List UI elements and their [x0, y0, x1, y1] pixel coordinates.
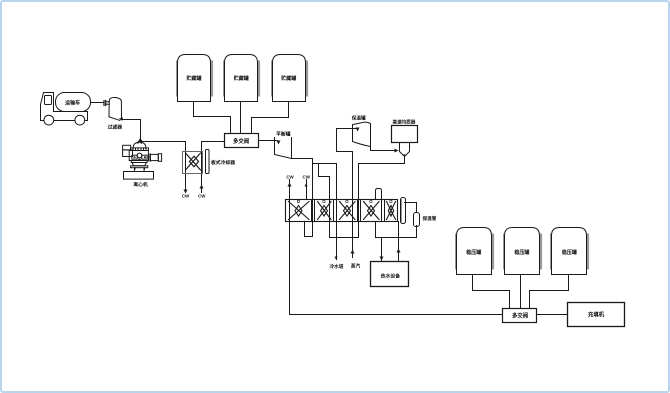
pressure tank 稳压罐 3 — [550, 228, 589, 275]
plate cooler through-pipes — [186, 142, 202, 193]
CW arrow line 1 — [290, 180, 503, 315]
wire tank3 to valve — [252, 102, 289, 134]
svg-text:热水设备: 热水设备 — [381, 273, 400, 280]
wire steam line — [337, 129, 358, 258]
svg-text:离心机: 离心机 — [133, 181, 148, 188]
wire tank to valve right 2 — [520, 275, 522, 309]
svg-text:CW: CW — [286, 175, 294, 180]
storage tank 贮藏罐 1 — [176, 55, 213, 102]
storage tank 贮藏罐 2 — [223, 55, 260, 102]
homogenizer 高速均质器 — [392, 126, 418, 158]
CW outlet arrow left — [184, 190, 188, 194]
CW arrow line 2 — [306, 180, 308, 200]
svg-text:运输车: 运输车 — [65, 99, 80, 106]
svg-text:多交阀: 多交阀 — [512, 311, 529, 319]
wire tank2 to valve — [240, 102, 242, 134]
svg-text:CW: CW — [198, 194, 206, 199]
balance tank 平衡罐 — [275, 138, 292, 159]
pasteurizer block 杀菌机 — [286, 200, 398, 222]
truck 运输车 — [41, 93, 91, 126]
wire balance tank to pasteurizer — [292, 159, 313, 237]
CW inlet arrow right — [200, 185, 204, 189]
plate cooler 板式冷却器 — [183, 150, 210, 174]
pasteurizer section 2 pattern — [318, 201, 332, 220]
wire homogenizer to pasteurizer — [359, 158, 405, 238]
wire hot water loop — [376, 222, 417, 238]
multi-way valve right 多交阀 — [503, 309, 537, 323]
wire valve to balance tank — [259, 141, 279, 143]
wire truck to filter — [91, 102, 104, 104]
pressure tank 稳压罐 2 — [503, 228, 542, 275]
svg-text:稳压罐: 稳压罐 — [562, 249, 577, 256]
pasteurizer vent stub — [376, 189, 382, 200]
wire cooler to valve — [202, 141, 225, 143]
svg-text:板式冷却器: 板式冷却器 — [211, 159, 235, 166]
svg-text:过滤器: 过滤器 — [108, 124, 123, 131]
svg-text:多交阀: 多交阀 — [233, 137, 250, 145]
svg-text:CW: CW — [182, 194, 190, 199]
svg-text:充填机: 充填机 — [588, 311, 605, 319]
pasteurizer section 3 pattern — [340, 201, 356, 220]
holding tube 保温管 — [414, 213, 420, 227]
wire hopper to homogenizer — [371, 146, 396, 151]
multi-way valve 多交阀 — [225, 134, 259, 148]
svg-text:保温罐: 保温罐 — [351, 114, 366, 121]
wire valve to filler — [538, 314, 568, 316]
svg-text:高速均质器: 高速均质器 — [393, 118, 416, 125]
wire tank1 to valve — [194, 102, 231, 134]
pasteurizer section 5 pattern — [387, 201, 396, 220]
wire holding tube down — [416, 226, 418, 238]
wire staircase regen — [313, 163, 337, 165]
wire tank to valve right 3 — [530, 275, 569, 309]
svg-text:贮藏罐: 贮藏罐 — [233, 75, 249, 82]
hot water unit 热水设备 — [371, 262, 409, 287]
svg-text:稳压罐: 稳压罐 — [466, 249, 481, 256]
wire tank to valve right 1 — [473, 275, 510, 309]
pasteurizer section 1 pattern — [289, 201, 310, 220]
pasteurizer section 4 pattern — [364, 201, 380, 220]
wire end cap to holding tube — [405, 203, 417, 213]
filling machine 充填机 — [568, 303, 625, 327]
wire centrifuge to plate cooler — [141, 141, 186, 143]
svg-text:保温管: 保温管 — [422, 215, 437, 222]
wire filter to centrifuge — [122, 120, 141, 142]
svg-text:贮藏罐: 贮藏罐 — [280, 75, 296, 82]
svg-text:稳压罐: 稳压罐 — [514, 249, 529, 256]
centrifuge 离心机 — [123, 139, 162, 179]
filter 过滤器 — [104, 97, 123, 120]
svg-text:贮藏罐: 贮藏罐 — [185, 75, 201, 82]
wire to cooling tower — [336, 164, 338, 260]
svg-text:CW: CW — [303, 175, 311, 180]
pasteurizer end cap — [401, 198, 406, 224]
storage tank 贮藏罐 3 — [271, 55, 308, 102]
svg-text:平衡罐: 平衡罐 — [276, 130, 291, 137]
svg-text:冷水塔: 冷水塔 — [330, 263, 344, 270]
svg-text:蒸汽: 蒸汽 — [351, 262, 361, 269]
pressure tank 稳压罐 1 — [455, 228, 494, 275]
holding hopper 保温罐 — [353, 122, 371, 146]
